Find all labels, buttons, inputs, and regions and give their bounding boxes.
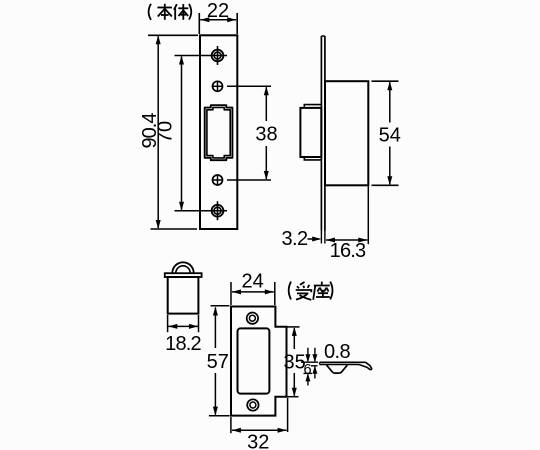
svg-text:70: 70 [155,121,177,143]
mount hole top (plus) [213,81,223,91]
svg-text:3.2: 3.2 [281,228,307,250]
kanji za [313,282,330,300]
strike screw top [247,313,258,324]
label (hontai) [149,4,192,20]
kanji tai [174,4,188,20]
strike tab side view bar [320,361,366,363]
side faceplate extension lines [320,231,322,244]
strike tab bent tip [366,362,372,369]
plunger flange [165,273,202,277]
dim 22 arrow line [200,19,236,21]
faceplate front view [200,35,237,229]
dim 18.2 extension lines [167,315,169,332]
svg-text:18.2: 18.2 [165,333,201,355]
screw hole top (phillips) [212,46,224,65]
dim 32 extension lines [230,417,232,433]
svg-text:54: 54 [379,125,401,147]
mount hole bottom (plus) [213,175,223,185]
svg-text:6: 6 [304,362,312,378]
dim 6 down arrow [307,348,309,362]
svg-text:35: 35 [283,351,305,373]
dim 16.3 extension line right [367,186,369,244]
extension line 70 top / screw crosshair [175,55,228,57]
side view latch flange [304,105,321,160]
dim 57 ticks [211,305,230,307]
side view lock body [325,81,368,185]
plunger dome outer arc [172,262,193,273]
dim 38 extension lines [227,85,271,87]
dim 90.4 ticks [148,34,198,36]
dim 35 arrow line [293,328,295,349]
dim 22 extension lines [198,13,200,34]
label (juza) [289,282,333,300]
dim 90.4 arrow line [157,36,159,228]
dim 57 arrow line [214,308,216,349]
strike plate outline [231,307,287,416]
extension line 70 bottom / screw crosshair [175,210,228,212]
svg-text:32: 32 [247,432,269,450]
dim 24 arrow line [232,291,274,293]
svg-text:57: 57 [207,351,229,373]
dim 0.8 up arrow [314,367,316,379]
svg-text:38: 38 [255,124,277,146]
side view thin faceplate [320,36,322,231]
dim 3.2 arrow [308,238,320,240]
kanji hon [158,4,173,20]
dim 54 ticks [372,80,399,82]
dim 6 / 0.8 ticks [301,361,318,363]
side view latch head [300,108,321,157]
screw hole bottom (phillips) [212,201,224,220]
svg-text:22: 22 [207,0,229,22]
plunger dome inner arc [176,266,190,273]
svg-text:16.3: 16.3 [330,240,366,262]
strike tab dimple [327,365,348,373]
strike screw bottom [247,399,258,410]
dim 32 arrow line [232,429,287,431]
latch opening front view inner [207,108,230,158]
plunger body [168,277,199,314]
dim 0.8 down arrow [314,348,316,362]
dim 54 arrow line [389,82,391,122]
latch opening front view outer [205,105,233,160]
strike cutout [238,328,270,393]
dim 16.3 arrow line [326,239,367,241]
dim 38 arrow line [265,87,267,121]
kanji ju [296,282,312,300]
dim 6 up arrow [307,374,309,385]
dim 35 ticks [288,326,300,328]
dim 24 extension lines [230,282,232,305]
svg-text:24: 24 [241,271,263,293]
dim 18.2 arrow line [168,325,198,327]
svg-text:0.8: 0.8 [324,341,350,363]
dim 70 arrow line [181,57,183,210]
